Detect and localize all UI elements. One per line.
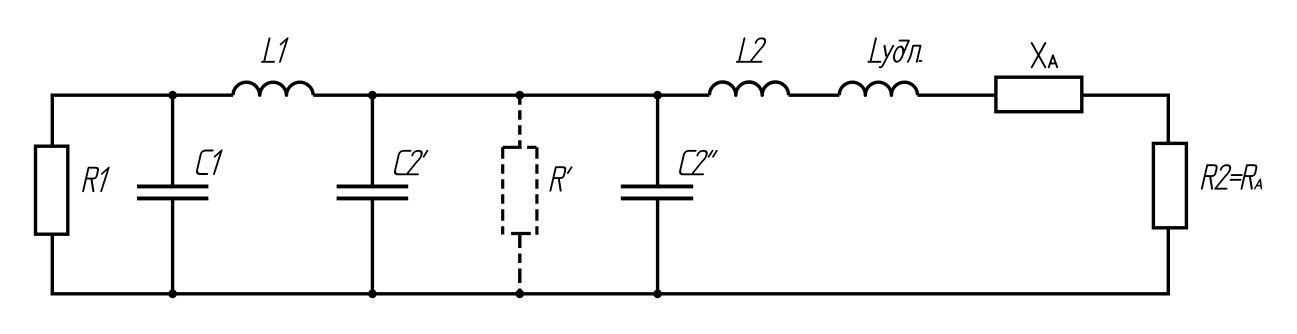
wire left rail upper (R1 top lead) (51, 94, 54, 147)
junction bottom node 2 (C2') (368, 289, 377, 298)
label XA (1032, 43, 1058, 67)
wire top rail middle segment (313, 93, 709, 96)
wire C2'' bottom lead (656, 197, 659, 294)
wire top rail between L2 and Ludl (789, 93, 840, 96)
wire top rail right segment with corner (1082, 95, 1169, 143)
wire bottom rail (51, 292, 1170, 295)
resistor R' (dashed) (503, 146, 537, 149)
reactance box XA (996, 77, 1082, 112)
label R' (550, 167, 571, 191)
wire right rail lower (R2 bottom lead) (1167, 228, 1170, 294)
wire C1 bottom lead (171, 197, 174, 294)
inductor Ludl (extension) (839, 82, 917, 95)
wire R' bottom lead (dashed) (518, 234, 521, 294)
wire R' top lead (dashed) (518, 95, 521, 148)
wire left rail lower (R1 bottom lead) (51, 234, 54, 295)
label C2'' (679, 151, 716, 175)
inductor L1 (233, 82, 313, 95)
capacitor C2' plates (337, 184, 409, 188)
label L1 (262, 38, 288, 62)
junction top node 4 (C2'') (653, 91, 662, 100)
label R2=RA (1202, 165, 1267, 189)
wire top rail left segment (51, 93, 233, 96)
wire C2' top lead (371, 95, 374, 188)
resistor R2 (1153, 143, 1186, 227)
label Ludl. (867, 38, 926, 67)
wire top rail between Ludl and XA box (918, 93, 997, 96)
capacitor C1 plates (137, 184, 208, 188)
junction bottom node 4 (C2'') (653, 289, 662, 298)
label C1 (196, 151, 221, 175)
junction top node 3 (R') (515, 91, 524, 100)
inductor L2 (709, 82, 788, 95)
label C2' (394, 151, 427, 175)
resistor R1 (36, 146, 68, 234)
capacitor C2'' plates (621, 184, 693, 188)
junction top node 2 (C2') (368, 91, 377, 100)
wire C1 top lead (171, 95, 174, 188)
label R1 (83, 168, 109, 192)
label L2 (737, 38, 767, 62)
junction bottom node 3 (R') (515, 289, 524, 298)
junction top node 1 (C1) (168, 91, 177, 100)
junction bottom node 1 (C1) (168, 289, 177, 298)
wire C2' bottom lead (371, 197, 374, 294)
wire C2'' top lead (656, 95, 659, 188)
